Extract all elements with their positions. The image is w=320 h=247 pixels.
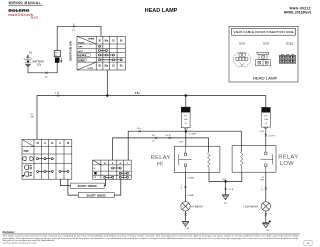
label wire 4R xyxy=(72,24,76,32)
ground (battery) xyxy=(25,64,31,66)
parking lamp icon xyxy=(23,157,34,161)
wire bus to light switch xyxy=(36,96,38,140)
ground G5 xyxy=(262,220,271,227)
page number box xyxy=(304,240,312,245)
wire short inside 2 xyxy=(68,179,121,195)
battery E1 xyxy=(24,51,45,66)
light switch contacts xyxy=(37,158,69,173)
wire relay HI to lamp xyxy=(185,173,187,202)
lamp LOW BEAM xyxy=(261,202,270,211)
connector view box xyxy=(229,26,298,82)
wire fuse F1 to ignition switch xyxy=(57,26,101,50)
wire relay coils to ground node xyxy=(209,172,242,181)
wire dimmer col8 to relay HI coil xyxy=(113,138,209,160)
wire fuse F3 to relay LOW xyxy=(264,127,268,129)
ignition contacts xyxy=(99,45,123,61)
ignition switch table xyxy=(77,36,125,70)
bus wire xyxy=(37,95,266,97)
fuse F2 (HI) xyxy=(185,96,187,108)
wire short inside 1 xyxy=(60,179,105,185)
connector IC/10 xyxy=(279,54,295,63)
wire lamp HI to ground G4 xyxy=(185,211,187,221)
dimmer switch table xyxy=(93,160,132,179)
logo BOLERO maXX PLUS xyxy=(8,8,29,13)
wire ignition switch to bus xyxy=(106,70,108,96)
light switch table xyxy=(22,139,72,179)
wire node A to relay LOW coil xyxy=(186,131,242,151)
footer disclaimer xyxy=(3,232,300,244)
title WIRING MANUAL xyxy=(9,1,43,5)
doc number MAN-00222 xyxy=(284,7,312,15)
dimmer contacts xyxy=(104,167,129,178)
wire lamp LOW to ground G5 xyxy=(265,211,267,223)
svg-text:PLUS: PLUS xyxy=(31,16,38,20)
wire junction to ground G3 xyxy=(225,181,227,194)
connector IC/9 xyxy=(256,52,271,66)
relay LOW contact xyxy=(261,146,273,173)
node A fuse HI output xyxy=(185,130,188,133)
lamp HI BEAM xyxy=(181,202,190,211)
wire relay LOW to lamp xyxy=(265,172,267,201)
ground G3 xyxy=(222,195,229,200)
relay HI coil xyxy=(208,152,211,172)
relay HI box xyxy=(174,146,220,172)
ground G4 xyxy=(182,221,189,226)
wire dimmer col7 to node A xyxy=(128,131,186,160)
relay LOW box xyxy=(232,146,276,173)
tick wire marker B+ xyxy=(45,72,48,79)
connector IC/4 xyxy=(234,52,250,66)
tick bus marker 4W xyxy=(55,93,60,97)
relay LOW coil xyxy=(240,151,243,172)
fuse F1 xyxy=(54,51,62,63)
node bus/ignition junction xyxy=(106,94,109,97)
relay HI contact xyxy=(179,146,192,172)
wire fuse F2 to relay HI xyxy=(184,128,188,130)
node coil ground junction xyxy=(224,180,227,183)
wire battery to fuse F1 xyxy=(27,60,29,63)
fuse F3 (LOW) xyxy=(265,96,267,108)
headlamp icons xyxy=(22,165,32,177)
